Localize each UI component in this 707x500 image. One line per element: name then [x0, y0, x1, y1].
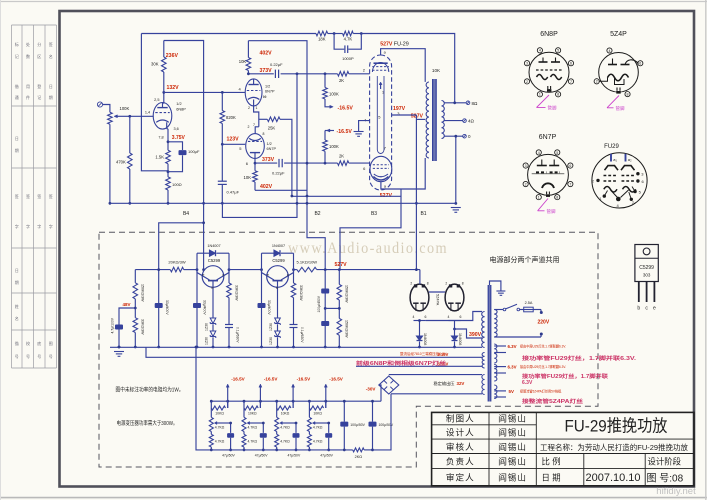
resistor 33K/3W collector: [293, 270, 295, 283]
svg-text:2: 2: [525, 182, 527, 186]
svg-text:5: 5: [557, 49, 559, 53]
svg-text:B1: B1: [420, 211, 426, 217]
svg-text:132V: 132V: [167, 85, 180, 91]
svg-text:8: 8: [427, 282, 429, 286]
svg-text:8: 8: [557, 93, 559, 97]
svg-text:100K: 100K: [329, 92, 339, 97]
svg-text:6N8P: 6N8P: [540, 31, 558, 38]
svg-text:4.7K: 4.7K: [344, 37, 353, 42]
svg-text:字: 字: [49, 223, 53, 229]
wire plate V1: [163, 92, 164, 103]
power supply section dashed boundary: [99, 232, 598, 467]
svg-text:通: 通: [15, 94, 19, 100]
svg-text:设计阶段: 设计阶段: [648, 457, 682, 467]
wire screen pin3: [392, 114, 417, 116]
svg-text:373V: 373V: [262, 157, 275, 163]
svg-text:2K: 2K: [339, 78, 344, 83]
svg-text:4Ω: 4Ω: [468, 119, 475, 124]
svg-text:390V: 390V: [469, 332, 482, 338]
capacitor C2 0.22uF: [274, 70, 276, 78]
caps 100uF/450V stack: [324, 270, 326, 289]
svg-text:阎锡山: 阎锡山: [498, 442, 527, 452]
wire 132V node to grid: [164, 91, 246, 93]
wire to FU29 grid2: [284, 162, 337, 164]
svg-text:373V: 373V: [260, 68, 273, 74]
svg-text:4.7KΩ: 4.7KΩ: [215, 439, 225, 443]
pin note 5Z4P: [607, 96, 619, 108]
svg-text:日 期: 日 期: [542, 472, 561, 482]
capacitor 1000P: [334, 34, 344, 50]
svg-text:10KΩ: 10KΩ: [313, 412, 322, 416]
svg-text:2: 2: [526, 80, 528, 84]
capacitor 100uF/50V #1: [343, 401, 345, 421]
svg-text:标: 标: [15, 41, 19, 47]
svg-text:8: 8: [556, 196, 558, 200]
wire 0 to ground: [455, 136, 457, 203]
transistor C5299 regulator at x=213: [202, 266, 224, 288]
svg-text:接由中周U29灯丝,1.7脚联翻6.3V.: 接由中周U29灯丝,1.7脚联翻6.3V.: [520, 344, 566, 349]
svg-text:设计人: 设计人: [446, 427, 475, 438]
svg-text:1: 1: [539, 93, 541, 97]
svg-text:6: 6: [639, 62, 641, 66]
capacitor B4 33uF/400V: [155, 303, 163, 308]
NFB rail top: [141, 33, 316, 35]
svg-text:47μ/50V: 47μ/50V: [320, 454, 333, 458]
wire bus to bridge: [379, 385, 381, 401]
svg-text:150KΩ/3W: 150KΩ/3W: [344, 320, 348, 338]
resistor R4 10K: [247, 41, 249, 58]
svg-text:33μ/400V: 33μ/400V: [165, 300, 169, 315]
svg-text:件: 件: [26, 94, 30, 100]
svg-text:工程名称：为劳动人民打造的FU-29推挽功放: 工程名称：为劳动人民打造的FU-29推挽功放: [540, 442, 688, 452]
wire grid V2b: [222, 143, 245, 145]
OPT core: [433, 79, 437, 161]
svg-text:日: 日: [15, 268, 19, 273]
svg-text:6N7P: 6N7P: [265, 90, 275, 94]
svg-text:记: 记: [37, 94, 41, 100]
svg-text:100μ/450V: 100μ/450V: [317, 295, 321, 312]
wires 32V winding: [389, 374, 482, 376]
svg-text:820K: 820K: [226, 115, 236, 120]
svg-text:电源变压器功率需大于300W。: 电源变压器功率需大于300W。: [117, 419, 178, 427]
primary 220V winding: [494, 310, 497, 338]
svg-text:3,6: 3,6: [174, 127, 179, 131]
FU29 cathode ground: [359, 121, 370, 132]
capacitor 33uF/400V emitter: [196, 270, 198, 303]
svg-text:审核人: 审核人: [446, 441, 475, 452]
wire 220V return: [494, 336, 541, 338]
bias cell 2: [243, 400, 246, 403]
heater wire 3.15V upper: [146, 347, 482, 357]
tube V1 1/2 6N8P: [153, 103, 172, 130]
svg-text:236V: 236V: [166, 53, 179, 59]
wire: [103, 105, 110, 113]
svg-text:4: 4: [538, 151, 540, 155]
svg-text:数: 数: [26, 53, 30, 59]
svg-text:4: 4: [539, 49, 541, 53]
wire B4 leg to rail: [203, 223, 205, 270]
svg-text:2: 2: [248, 125, 250, 129]
svg-text:2: 2: [248, 106, 250, 110]
svg-text:管脚: 管脚: [548, 105, 557, 112]
svg-text:3.75V: 3.75V: [172, 135, 186, 141]
wire anode top: [381, 49, 426, 82]
svg-text:签: 签: [49, 41, 53, 47]
svg-text:48V: 48V: [122, 302, 130, 307]
resistor 4.7K: [334, 33, 343, 35]
svg-text:校: 校: [26, 340, 30, 346]
wire primary CT 527V: [416, 118, 425, 120]
svg-text:字: 字: [26, 223, 30, 229]
rail 527V: [135, 269, 170, 271]
wire B3 elbow: [340, 189, 401, 270]
svg-text:2: 2: [410, 282, 412, 286]
svg-text:7: 7: [569, 182, 571, 186]
svg-text:hifidiy.net: hifidiy.net: [656, 486, 696, 497]
svg-text:C5299: C5299: [272, 258, 285, 263]
svg-text:10K: 10K: [432, 68, 441, 73]
capacitor 47uF/50V: [230, 423, 232, 433]
svg-text:B2: B2: [314, 211, 320, 217]
svg-text:6N7P: 6N7P: [539, 134, 557, 141]
svg-text:20KΩ/3W: 20KΩ/3W: [168, 260, 185, 265]
svg-text:1Z30: 1Z30: [205, 337, 209, 345]
svg-text:管脚: 管脚: [547, 208, 556, 215]
svg-text:1: 1: [382, 91, 384, 95]
rail between regulators: [229, 269, 262, 271]
wire cathode V2b: [255, 127, 259, 134]
wire 402V rail to B2: [248, 41, 325, 270]
svg-text:C5299: C5299: [639, 265, 654, 271]
svg-text:期: 期: [15, 279, 19, 285]
svg-text:6N7P: 6N7P: [267, 147, 277, 151]
svg-text:-16.5V: -16.5V: [297, 376, 311, 381]
svg-text:527V: 527V: [335, 262, 348, 268]
svg-text:处: 处: [26, 41, 30, 47]
resistor 470K: [129, 116, 131, 153]
svg-text:名: 名: [15, 315, 19, 321]
svg-text:签: 签: [49, 193, 53, 199]
svg-text:FU-29: FU-29: [394, 42, 409, 48]
resistor 100K grid2: [325, 130, 334, 132]
svg-text:期: 期: [49, 94, 53, 100]
svg-text:记: 记: [15, 53, 19, 59]
svg-text:阎锡山: 阎锡山: [498, 457, 527, 467]
heater winding 6.3V #1: [494, 344, 497, 363]
svg-text:制图人: 制图人: [446, 413, 475, 424]
svg-text:0.1μ/630V: 0.1μ/630V: [300, 327, 304, 343]
wire plates tube2 joined: [449, 320, 461, 322]
zener diodes 1Z30: [277, 295, 279, 318]
svg-text:FU-29推挽功放: FU-29推挽功放: [565, 417, 668, 436]
wire: [109, 124, 111, 203]
heater taps: [494, 345, 506, 347]
resistor 33K/3W collector: [228, 270, 230, 283]
svg-text:4.7KΩ: 4.7KΩ: [280, 439, 290, 443]
svg-text:470K: 470K: [116, 160, 126, 165]
resistor R3 820K: [221, 92, 223, 110]
svg-text:10K: 10K: [244, 175, 252, 180]
rectifier tube 5Z4P #2: [445, 284, 464, 311]
NFB wire to 8ohm: [361, 34, 454, 103]
svg-text:0.22μF: 0.22μF: [272, 171, 285, 176]
svg-text:日: 日: [15, 136, 19, 141]
resistor 18K: [316, 31, 328, 36]
svg-text:10KΩ: 10KΩ: [281, 412, 290, 416]
svg-text:b: b: [212, 286, 214, 290]
svg-text:签: 签: [26, 193, 30, 199]
svg-text:7: 7: [570, 80, 572, 84]
resistor 2K bias: [353, 448, 364, 452]
wire 4 ohm tap: [444, 120, 463, 122]
wire plate V2b: [254, 158, 256, 163]
svg-text:1/2: 1/2: [267, 142, 272, 146]
svg-text:1/2: 1/2: [176, 102, 181, 106]
capacitor 0.1uF/630V: [225, 324, 233, 326]
capacitor 4.7uF/100V: [119, 308, 135, 325]
svg-text:www.Audio-audio.com: www.Audio-audio.com: [288, 240, 448, 257]
svg-text:1: 1: [538, 196, 540, 200]
svg-text:150KΩ/3W: 150KΩ/3W: [344, 285, 348, 303]
svg-text:1N4007: 1N4007: [207, 244, 220, 248]
svg-text:100Ω: 100Ω: [172, 182, 182, 187]
svg-text:30K: 30K: [151, 61, 159, 66]
heater wire 3.15V lower: [356, 365, 482, 367]
rectifier tube 5Z4P #1: [410, 284, 429, 311]
cathode network V1: 1.5K / 100uF / 100ohm: [167, 128, 168, 130]
svg-text:1,4: 1,4: [145, 111, 150, 115]
svg-text:47μ/50V: 47μ/50V: [255, 454, 268, 458]
resistor 2K: [338, 72, 349, 77]
svg-text:32V: 32V: [457, 381, 465, 386]
svg-text:197V: 197V: [393, 106, 406, 112]
heater winding 6.3V #2: [494, 365, 497, 382]
tube V2b 1/2 6N7P lower (inverted): [246, 134, 265, 159]
svg-text:8: 8: [462, 282, 464, 286]
svg-text:号: 号: [49, 353, 53, 359]
svg-text:5V: 5V: [509, 389, 514, 394]
svg-text:5Z4P: 5Z4P: [610, 31, 627, 38]
svg-text:6: 6: [569, 164, 571, 168]
resistor 100K grid1: [324, 74, 326, 88]
capacitor 0.1uF/630V: [290, 324, 298, 326]
svg-text:姓: 姓: [15, 303, 19, 309]
winding 5V: [494, 385, 497, 399]
wire 0 tap: [444, 135, 463, 137]
svg-text:4.7KΩ: 4.7KΩ: [313, 439, 323, 443]
wire rail to rect filaments: [419, 270, 421, 285]
svg-text:e: e: [653, 306, 656, 312]
svg-text:阎锡山: 阎锡山: [498, 414, 527, 424]
svg-text:图: 图: [49, 340, 53, 346]
svg-text:5Z4PA: 5Z4PA: [436, 294, 440, 306]
svg-text:号: 号: [37, 353, 41, 359]
svg-text:字: 字: [37, 223, 41, 229]
volume pot RP1 100K: [108, 112, 113, 124]
svg-text:6.3V: 6.3V: [522, 380, 533, 386]
svg-text:c: c: [287, 272, 289, 277]
svg-text:8Ω: 8Ω: [472, 101, 479, 106]
diode 1N4007 bypass: [261, 253, 263, 269]
svg-text:33μ/400V: 33μ/400V: [267, 300, 271, 315]
wire plates tube1 to HV top: [426, 312, 482, 321]
svg-text:4: 4: [448, 315, 450, 319]
capacitor 0.47uF: [221, 144, 223, 181]
wire anode bottom: [381, 158, 425, 189]
svg-text:1N4007: 1N4007: [272, 244, 285, 248]
left revision table: [11, 25, 13, 368]
svg-text:图中未标注功率的电阻均为1W。: 图中未标注功率的电阻均为1W。: [116, 386, 184, 394]
svg-text:7: 7: [253, 123, 255, 127]
svg-text:5.1KΩ/10W: 5.1KΩ/10W: [297, 260, 318, 265]
svg-text:0.47μF: 0.47μF: [227, 190, 240, 195]
svg-text:402V: 402V: [260, 50, 273, 56]
scan edge borders: [0, 1, 707, 3]
wire 8 ohm tap: [444, 102, 466, 104]
svg-text:-16.5V: -16.5V: [231, 376, 245, 381]
svg-text:2: 2: [596, 80, 598, 84]
svg-text:150KΩ/3W: 150KΩ/3W: [140, 284, 144, 302]
resistor R5 10K lower: [254, 163, 256, 171]
transistor C5299 regulator at x=277.5: [267, 266, 289, 288]
svg-text:33KΩ/3W: 33KΩ/3W: [235, 285, 239, 301]
svg-text:前级6N8P和倒相级6N7P灯丝: 前级6N8P和倒相级6N7P灯丝: [356, 360, 446, 367]
svg-text:33μ/400V: 33μ/400V: [203, 300, 207, 315]
input jack J1: [97, 102, 102, 107]
svg-text:借: 借: [15, 83, 19, 89]
svg-text:签: 签: [37, 193, 41, 199]
svg-text:描: 描: [15, 340, 19, 346]
svg-text:阎锡山: 阎锡山: [498, 428, 527, 438]
svg-text:1.5K: 1.5K: [155, 155, 164, 160]
svg-text:1Z30: 1Z30: [205, 323, 209, 331]
svg-text:3: 3: [526, 62, 528, 66]
NFB left drop to cathode: [141, 34, 168, 171]
power transformer core: [488, 285, 491, 402]
svg-text:签: 签: [15, 193, 19, 199]
capacitor C3 0.22uF lower: [278, 159, 280, 167]
svg-text:10KΩ: 10KΩ: [248, 412, 257, 416]
svg-text:1: 1: [256, 106, 258, 110]
svg-text:审定人: 审定人: [446, 472, 475, 483]
svg-text:比 例: 比 例: [542, 456, 561, 466]
resistor 25K tail: [259, 118, 268, 120]
svg-text:名: 名: [49, 53, 53, 59]
ground rail upper section: [110, 202, 456, 204]
svg-text:1Z30: 1Z30: [269, 323, 273, 331]
bias rail: [292, 195, 401, 197]
svg-text:5: 5: [556, 151, 558, 155]
bias cell 4: [308, 400, 311, 403]
svg-text:18K: 18K: [318, 37, 326, 42]
svg-text:登: 登: [37, 83, 41, 89]
svg-text:电源部分两个声道共用: 电源部分两个声道共用: [490, 255, 560, 264]
svg-text:33KΩ/3W: 33KΩ/3W: [140, 319, 144, 335]
svg-text:号: 号: [15, 353, 19, 359]
svg-text:b: b: [276, 286, 278, 290]
svg-text:8: 8: [627, 93, 629, 97]
capacitor 33uF/400V emitter: [261, 270, 263, 303]
resistor R2 30K: [163, 41, 165, 58]
resistor 2K: [338, 161, 349, 166]
bias supply bus -16.5V: [211, 400, 381, 402]
switch and fuse 220V: [494, 309, 503, 311]
svg-text:123V: 123V: [227, 137, 240, 143]
pin note 6N7P: [538, 199, 548, 211]
bias cell 1: [210, 400, 213, 403]
svg-text:2K: 2K: [339, 153, 344, 158]
zener diodes 1Z30: [212, 295, 214, 318]
svg-text:B4: B4: [183, 211, 189, 217]
main ground rail power: [110, 346, 482, 348]
svg-text:-16.5V: -16.5V: [329, 376, 343, 381]
svg-text:接由中周U29灯丝,1.7脚联翻6.3V.: 接由中周U29灯丝,1.7脚联翻6.3V.: [520, 364, 566, 369]
heater winding 3.15V: [482, 353, 484, 369]
tube V3 FU-29: [370, 55, 392, 190]
svg-text:2.5A: 2.5A: [525, 301, 533, 305]
svg-text:1N4008: 1N4008: [423, 333, 427, 345]
bias bottom rail: [211, 449, 352, 451]
FU29 lower section: [370, 156, 392, 181]
svg-text:-16.5V: -16.5V: [337, 129, 353, 135]
svg-text:-16.5V: -16.5V: [338, 105, 354, 111]
svg-text:6: 6: [570, 62, 572, 66]
tube V2a 1/2 6N7P upper: [245, 79, 262, 106]
svg-text:4.7KΩ: 4.7KΩ: [215, 426, 225, 430]
svg-text:1N4008: 1N4008: [458, 333, 462, 345]
svg-text:100μF: 100μF: [188, 149, 200, 154]
svg-text:8: 8: [263, 132, 265, 136]
svg-text:220V: 220V: [538, 320, 550, 326]
svg-text:接功率管FU29灯丝，1.7脚并联: 接功率管FU29灯丝，1.7脚并联: [521, 373, 608, 380]
svg-text:C5299: C5299: [208, 258, 221, 263]
svg-text:303: 303: [643, 273, 651, 278]
svg-text:字: 字: [15, 223, 19, 229]
resistor 20K/3W: [170, 267, 183, 272]
svg-text:6.3V: 6.3V: [508, 344, 517, 349]
wire plate V2a: [248, 73, 273, 75]
svg-text:整流后经7810三端稳压给6.3V.: 整流后经7810三端稳压给6.3V.: [400, 351, 447, 356]
svg-text:4: 4: [608, 49, 610, 53]
svg-text:6N8P: 6N8P: [176, 107, 186, 111]
capacitor 47uF/50V: [328, 423, 330, 433]
svg-text:47μ/50V: 47μ/50V: [288, 454, 301, 458]
svg-text:稳定输出压: 稳定输出压: [434, 380, 455, 387]
svg-text:10KΩ: 10KΩ: [215, 412, 224, 416]
capacitor 47uF/50V: [295, 423, 297, 433]
svg-text:负责人: 负责人: [446, 456, 475, 467]
svg-text:4.7KΩ: 4.7KΩ: [248, 426, 258, 430]
svg-text:c: c: [222, 272, 224, 277]
wire rail to bridge: [373, 394, 392, 450]
title block: [432, 412, 694, 485]
svg-text:4.7μ/100V: 4.7μ/100V: [111, 317, 115, 333]
svg-text:FU29: FU29: [604, 144, 619, 150]
svg-text:7,8: 7,8: [158, 136, 163, 140]
svg-text:a₂: a₂: [628, 157, 632, 162]
resistor 100ohm: [167, 172, 169, 177]
ground link to bias rail: [196, 347, 211, 450]
svg-text:10K: 10K: [239, 59, 247, 64]
output transformer OPT primary: [426, 82, 429, 158]
svg-text:b: b: [637, 306, 640, 312]
svg-text:3: 3: [525, 164, 527, 168]
svg-text:B3: B3: [371, 211, 377, 217]
svg-text:100K: 100K: [120, 106, 130, 111]
svg-text:日: 日: [49, 84, 53, 89]
wire tube2 to HV lower tap: [455, 329, 483, 338]
svg-text:4: 4: [413, 315, 415, 319]
